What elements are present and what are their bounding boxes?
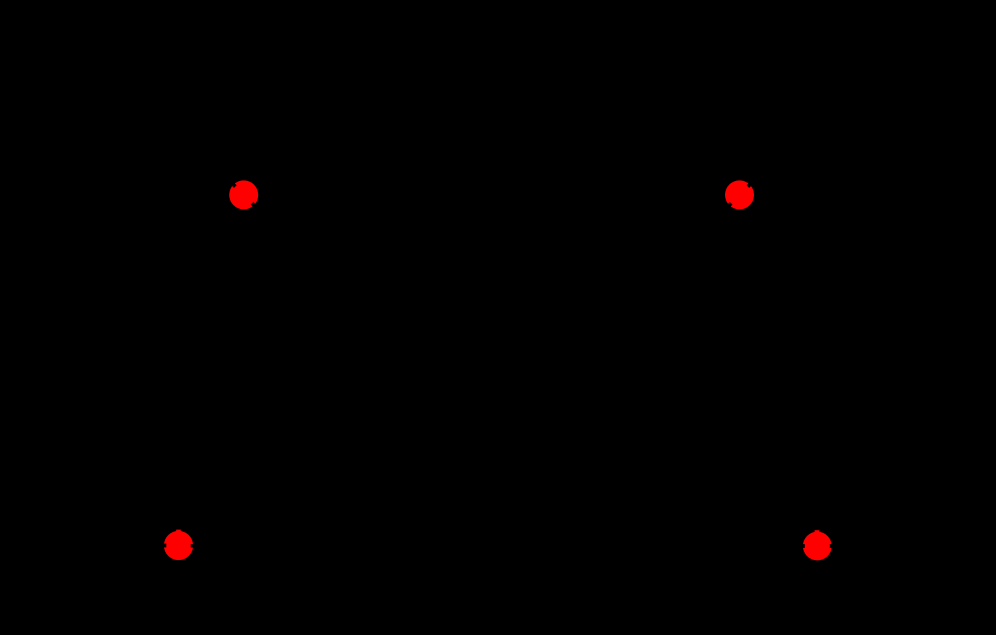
capacitor C1 (center bottom between diagonals)	[455, 421, 485, 470]
wire diagonal from node B up-right	[752, 95, 839, 182]
wire bottom rail left segment	[60, 544, 162, 548]
wire bottom rail right segment	[835, 544, 936, 548]
voltage source V1 (left side circle)	[38, 298, 82, 342]
node B (junction dot, top-right)	[725, 180, 754, 209]
svg-text:V1: V1	[20, 313, 37, 329]
capacitor C2 (center bottom right plate pair)	[498, 421, 528, 470]
battery plus label lead	[52, 281, 68, 298]
wire stub overlapping node B rim (upper-right bite)	[748, 183, 752, 187]
wire stub overlapping node B rim (lower-left bite)	[727, 203, 731, 207]
wire stub overlapping node C rim (left bite)	[161, 544, 166, 548]
wire diagonal from node B down-left	[513, 208, 727, 421]
svg-text:C1: C1	[430, 437, 448, 453]
wire top rail	[144, 93, 839, 97]
wire stub overlapping node A rim (lower-right bite)	[252, 203, 256, 207]
node D marker stub (small red protrusion on top rim)	[815, 530, 820, 533]
svg-text:R1: R1	[330, 227, 348, 243]
wire stub overlapping node D rim (left bite)	[800, 544, 805, 548]
svg-text:R2: R2	[640, 227, 658, 243]
wire diagonal from node A down-right	[256, 208, 470, 421]
wire left vertical from node C	[58, 95, 62, 546]
node C (junction dot, bottom-left)	[164, 531, 193, 560]
wire stub overlapping node C rim (right bite)	[191, 544, 196, 547]
svg-text:C2: C2	[532, 437, 550, 453]
node C marker stub (small red protrusion on top rim)	[176, 530, 181, 533]
wire bottom rail middle segment	[196, 544, 800, 548]
wire stub overlapping node A rim (upper-left bite)	[232, 183, 236, 187]
node A (junction dot, top-left)	[229, 180, 258, 209]
resistor R2 (on right diagonal)	[591, 251, 683, 287]
wire stub overlapping node D rim (right bite)	[830, 544, 835, 548]
node D (junction dot, bottom-right)	[803, 532, 832, 561]
resistor R1 (on left diagonal)	[300, 251, 392, 287]
wire diagonal from node A up-left	[144, 95, 231, 182]
ground (bottom center)	[471, 470, 512, 516]
